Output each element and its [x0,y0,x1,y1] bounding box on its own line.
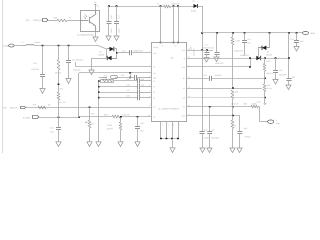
node junction [89,107,91,109]
resistor R528 [120,117,122,122]
ground module pins [172,139,174,148]
capacitor C23s [134,75,136,80]
wire pin drop [160,6,162,43]
svg-text:10uF/25V: 10uF/25V [193,47,196,56]
svg-text:12NK CP1: 12NK CP1 [215,62,224,65]
wire pin24 row [187,50,214,52]
svg-text:100N: 100N [118,28,121,33]
svg-text:4K7: 4K7 [91,123,94,126]
svg-text:RS1M: RS1M [191,9,196,12]
ground under opto [95,32,97,37]
diode D8 top [110,47,114,51]
wire row3 [99,92,137,94]
svg-text:2K49 1%: 2K49 1% [231,102,239,105]
svg-text:GND_IN: GND_IN [10,107,18,110]
connector CON3 +5V [303,31,309,34]
wire drop to row4 [130,73,132,78]
svg-text:C24: C24 [122,50,125,53]
resistor R29 bead [111,76,118,79]
connector CON1 [43,19,48,22]
wire GND out [259,107,261,122]
svg-text:20K 1%: 20K 1% [267,72,274,75]
svg-text:1.69K CP4: 1.69K CP4 [234,50,243,53]
wire [137,77,152,79]
svg-text:BAV99: BAV99 [266,53,271,56]
diode D8 bottom [107,56,111,60]
capacitor C22 [296,33,298,41]
node junction [137,116,139,118]
svg-text:R36: R36 [267,84,270,87]
capacitor C24 [129,50,131,55]
wire D9 out [261,58,289,60]
svg-text:D2: D2 [193,0,195,3]
svg-text:10K/TR: 10K/TR [107,127,114,130]
connector CON7 GND [268,120,274,123]
wire pin23 row [187,58,257,60]
svg-text:TL431/TR: TL431/TR [121,113,130,116]
node 5V flag [94,4,97,6]
svg-text:4N7: 4N7 [140,129,143,132]
wire to C24 [117,52,129,54]
wire ST [39,117,80,119]
wire [198,6,203,8]
svg-text:R27: R27 [91,113,94,116]
svg-text:10uF/35V: 10uF/35V [211,136,220,139]
svg-text:C25: C25 [126,78,129,81]
svg-text:R6: R6 [85,121,87,124]
capacitor C21 [244,33,246,41]
svg-text:R34: R34 [235,91,238,94]
resistor R34 [231,90,234,99]
svg-text:100n/50V: 100n/50V [279,74,287,77]
node junction [177,5,179,7]
node junction [129,72,131,74]
capacitor C16 [108,6,110,21]
wire row4b [99,97,137,99]
svg-text:C27: C27 [126,89,129,92]
svg-text:R35: R35 [267,60,270,63]
svg-text:C34: C34 [292,76,295,79]
capacitor C23o [275,58,277,71]
wire pin19 row [187,97,266,99]
svg-text:R25: R25 [54,16,57,19]
svg-text:C13: C13 [50,126,53,129]
wire D8 right join [114,48,117,50]
node junction [160,5,162,7]
svg-text:L2: L2 [22,41,24,44]
svg-text:12NK CP4: 12NK CP4 [240,54,249,57]
diode D9 bottom [256,56,260,60]
capacitor C19 [216,33,218,52]
capacitor C31c [209,107,211,132]
svg-text:25uF/25V: 25uF/25V [203,47,212,50]
wire top rail [108,6,164,8]
node GND stub [264,98,266,104]
svg-text:C17: C17 [118,15,121,18]
svg-text:R245: R245 [103,77,107,80]
connector CON4 [9,44,14,47]
svg-text:600R 1A5: 600R 1A5 [172,2,180,5]
resistor R527 [112,115,120,118]
resistor R26 lower [57,92,60,100]
resistor R35 divider [264,58,266,64]
wire VCC drop [202,6,204,131]
wire opto collector to 5V flag [95,4,97,10]
capacitor C17 [116,6,118,21]
svg-text:51: 51 [69,16,71,19]
wire pin20 row [187,88,263,90]
wire row4 [100,77,108,79]
node junction [269,32,271,34]
svg-text:C31: C31 [211,129,214,132]
wire left bus [98,81,100,142]
node junction [296,32,298,34]
svg-text:4K7 1%: 4K7 1% [59,101,66,104]
resistor R245 row [99,80,101,82]
node junction [201,32,203,34]
diode D2 [194,4,198,8]
svg-text:C19: C19 [211,47,214,50]
svg-text:R28: R28 [33,104,36,107]
wire pin22 row [187,66,251,68]
wire module bottom pins [160,122,162,139]
node junction [58,45,60,47]
svg-text:C28: C28 [126,95,129,98]
connector CON6 [33,116,39,119]
resistor R38 [251,105,258,108]
svg-text:uF/50V: uF/50V [245,135,252,138]
node junction [108,5,110,7]
capacitor C row1 [137,78,139,83]
svg-text:C32: C32 [204,74,207,77]
wire link [250,58,252,67]
svg-text:L1: L1 [157,2,159,5]
svg-text:680uH: 680uH [35,41,41,44]
node bus junctions [98,80,100,82]
wire [67,20,80,22]
svg-text:D8: D8 [100,50,102,53]
node junction [116,5,118,7]
wire [115,77,135,79]
wire +5V rail [202,32,303,34]
svg-text:2K 1%: 2K 1% [267,87,273,90]
capacitor C10 [42,46,44,75]
wire left border [2,0,4,153]
node junction [173,5,175,7]
op-amp U3 optocoupler box [81,11,100,32]
wire net A [76,66,152,68]
wire D9 riser [269,33,271,48]
svg-text:SL_4750GF_TRIM3US: SL_4750GF_TRIM3US [158,107,179,110]
wire GND_IN [26,107,152,109]
op-amp U2 module box [152,43,187,122]
wire pin21 row [187,78,210,80]
capacitor C13 [56,127,61,129]
svg-text:C30: C30 [141,78,144,81]
capacitor C17b [206,50,208,53]
svg-text:C17: C17 [205,44,208,47]
ground D8 [92,58,107,60]
svg-text:CON1_5V: CON1_5V [33,19,43,22]
svg-text:10uF/25V: 10uF/25V [31,68,40,71]
svg-text:C26: C26 [126,84,129,87]
svg-text:R26: R26 [60,87,63,90]
capacitor C34 [288,33,290,78]
svg-text:R528: R528 [108,124,112,127]
wire [48,20,57,22]
wire FB row [79,116,112,118]
svg-text:1.69K: 1.69K [235,40,240,43]
wire [34,45,98,47]
inductor L2 [26,45,34,46]
wire row2 [99,86,137,88]
node junction [201,49,203,51]
wire pin drop [178,6,180,43]
svg-text:560R: 560R [252,103,257,106]
svg-text:C23: C23 [121,74,124,77]
wire net B [79,72,152,74]
svg-text:100n/25V: 100n/25V [73,69,81,72]
svg-text:C16: C16 [110,15,113,18]
wire pin17 row [187,115,240,117]
wire bottom pin bus [161,138,178,140]
svg-text:2: 2 [276,119,277,122]
svg-text:C23: C23 [279,69,282,72]
wire D8 left join [106,49,108,58]
wire D9 left join [258,48,260,58]
svg-text:C11 100n/25V: C11 100n/25V [72,58,84,61]
resistor R33 [232,33,234,37]
svg-text:BAV99: BAV99 [99,53,104,56]
node junction [232,32,234,34]
svg-text:1N2: 1N2 [140,122,143,125]
diode D9 top [258,47,262,49]
wire pin18 row [187,106,252,108]
svg-text:C31: C31 [141,84,144,87]
svg-text:SLA7540GATGW5: SLA7540GATGW5 [77,33,95,36]
svg-text:R527: R527 [104,113,108,116]
wire pin drop [173,6,175,43]
resistor R37 [232,116,234,121]
resistor R25 [57,19,67,22]
node junction [116,52,118,54]
svg-text:C22: C22 [290,38,293,41]
svg-text:6K8 1%: 6K8 1% [55,72,62,75]
svg-text:1uF/35V: 1uF/35V [215,74,223,77]
wire jog [98,46,107,50]
node junction [68,45,70,47]
svg-text:C21: C21 [247,38,250,41]
transistor Q1 phototransistor [80,20,89,22]
svg-text:R38: R38 [244,103,247,106]
node junction [244,32,246,34]
inductor L1 [164,5,171,8]
svg-text:D9: D9 [267,50,269,53]
wire [131,52,151,54]
capacitor C11 [68,46,70,61]
capacitor C35 [239,116,241,132]
capacitor C29 [137,117,139,127]
resistor R27 [89,107,91,120]
node junction [216,32,218,34]
capacitor C30 [200,131,205,133]
svg-text:C30: C30 [204,129,207,132]
svg-text:C10: C10 [33,62,36,65]
svg-text:ST-ARM: ST-ARM [23,116,31,119]
connector CON5 [21,107,26,109]
node junction [288,32,290,34]
svg-text:100N: 100N [110,28,113,33]
resistor R26 upper [58,46,60,60]
node junction [42,45,44,47]
wire [14,45,26,47]
resistor R28 [38,106,46,109]
